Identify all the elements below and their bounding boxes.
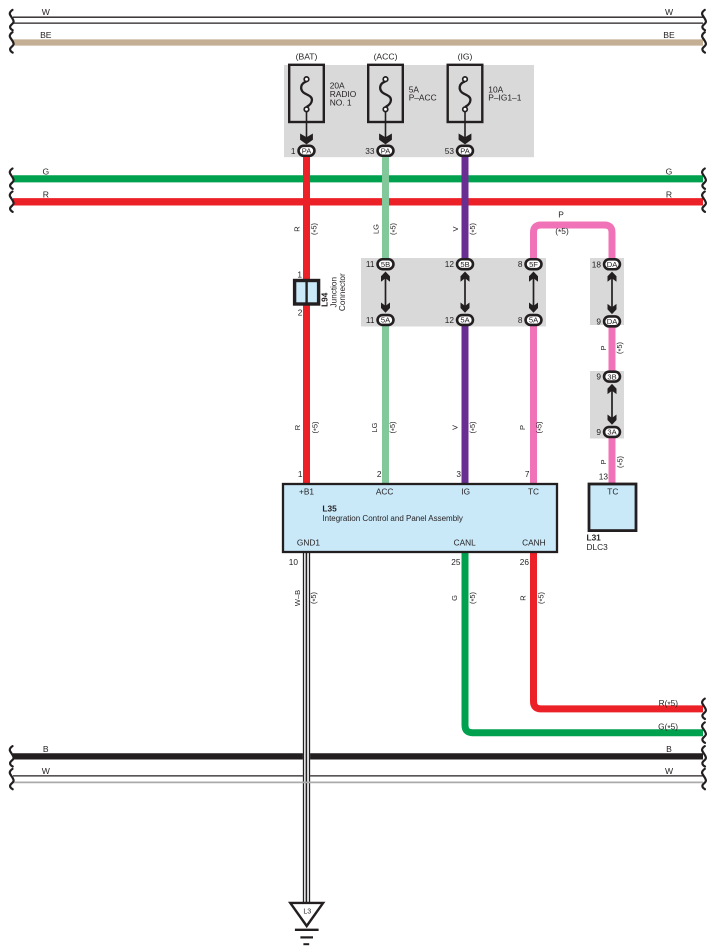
fuse 2 value 5A P-ACC bbox=[409, 84, 437, 102]
svg-text:R: R bbox=[292, 226, 301, 232]
svg-text:(ACC): (ACC) bbox=[374, 51, 398, 61]
svg-text:BE: BE bbox=[663, 30, 675, 40]
svg-text:+B1: +B1 bbox=[299, 487, 314, 497]
wire P (TC) lower segment to L35 bbox=[530, 320, 537, 484]
svg-text:(*5): (*5) bbox=[388, 421, 398, 434]
svg-text:12: 12 bbox=[445, 259, 455, 269]
svg-text:5B: 5B bbox=[381, 260, 390, 269]
svg-text:IG: IG bbox=[461, 487, 470, 497]
wire label P (*5) above L35 bbox=[518, 421, 545, 434]
svg-text:B: B bbox=[43, 744, 49, 754]
svg-text:9: 9 bbox=[596, 316, 601, 326]
connector pair 5B/5A pin 12 (V wire) bbox=[445, 259, 473, 325]
svg-text:(BAT): (BAT) bbox=[296, 51, 318, 61]
svg-text:8: 8 bbox=[518, 259, 523, 269]
svg-text:3A: 3A bbox=[607, 428, 617, 437]
svg-text:5A: 5A bbox=[381, 316, 391, 325]
svg-text:PA: PA bbox=[460, 147, 471, 156]
svg-text:CANH: CANH bbox=[522, 537, 546, 547]
svg-text:G: G bbox=[666, 166, 673, 176]
svg-text:R: R bbox=[293, 424, 302, 430]
fuse block background panel bbox=[284, 65, 534, 157]
svg-text:G: G bbox=[450, 595, 459, 601]
svg-text:18: 18 bbox=[592, 259, 602, 269]
svg-text:P: P bbox=[518, 425, 527, 430]
svg-text:P: P bbox=[558, 210, 564, 220]
bus BE (beige) bbox=[13, 39, 703, 45]
svg-text:10: 10 bbox=[289, 557, 299, 567]
svg-text:11: 11 bbox=[366, 315, 375, 325]
fuse (IG) 10A P-IG1-1 bbox=[448, 65, 483, 145]
svg-text:DA: DA bbox=[607, 317, 618, 326]
svg-text:(*5): (*5) bbox=[468, 591, 478, 604]
wire V (IG) upper segment bbox=[462, 155, 469, 264]
svg-text:G: G bbox=[42, 166, 49, 176]
svg-text:B: B bbox=[666, 744, 672, 754]
svg-text:TC: TC bbox=[607, 487, 618, 497]
wire label R (*5) upper bbox=[292, 222, 319, 235]
connector panel B (DA group) bbox=[590, 258, 624, 325]
wire label V (*5) upper bbox=[451, 222, 478, 235]
bus W (bottom) upper line bbox=[13, 775, 703, 777]
svg-text:DLC3: DLC3 bbox=[587, 542, 609, 552]
wire label W-B (*5) below GND1 bbox=[293, 590, 320, 606]
wire label G (*5) below CANL bbox=[450, 591, 478, 604]
svg-text:3B: 3B bbox=[607, 372, 616, 381]
wire label R (*5) above L35 bbox=[293, 421, 321, 434]
svg-text:(*5): (*5) bbox=[389, 222, 399, 235]
svg-text:W: W bbox=[42, 766, 51, 776]
wire R (+B1 feed) from fuse 1 to L35 bbox=[303, 155, 310, 484]
svg-text:(*5): (*5) bbox=[309, 591, 319, 604]
bus G (green) bbox=[13, 175, 703, 182]
svg-text:5A: 5A bbox=[460, 316, 470, 325]
svg-text:11: 11 bbox=[366, 259, 375, 269]
bus R (red) bbox=[13, 198, 703, 205]
wire label LG (*5) above L35 bbox=[370, 421, 399, 434]
svg-text:W: W bbox=[665, 7, 674, 17]
connector pair 3B/3A pins 9/9 (P wire) bbox=[596, 372, 620, 437]
wire label V (*5) above L35 bbox=[451, 421, 479, 434]
svg-text:LG: LG bbox=[370, 422, 379, 432]
svg-text:W–B: W–B bbox=[293, 590, 302, 606]
svg-text:LG: LG bbox=[371, 224, 380, 234]
wire LG (ACC) upper segment bbox=[382, 155, 389, 264]
wire LG (ACC) lower segment bbox=[382, 320, 389, 484]
svg-text:25: 25 bbox=[451, 557, 461, 567]
svg-text:P: P bbox=[599, 345, 608, 350]
ground L3 bbox=[290, 903, 323, 944]
svg-text:26: 26 bbox=[520, 557, 530, 567]
component L35 Integration Control and Panel Assembly bbox=[283, 484, 557, 552]
svg-text:W: W bbox=[665, 766, 674, 776]
svg-text:Connector: Connector bbox=[338, 273, 347, 311]
svg-text:12: 12 bbox=[445, 315, 455, 325]
wire label R (*5) below CANH bbox=[519, 591, 547, 604]
svg-text:53: 53 bbox=[445, 146, 455, 156]
svg-text:(*5): (*5) bbox=[535, 421, 545, 434]
connector pair 5F/5A pin 8 (P wire) bbox=[518, 259, 542, 325]
junction connector L94 bbox=[295, 270, 319, 318]
svg-text:5F: 5F bbox=[529, 260, 538, 269]
svg-text:W: W bbox=[42, 7, 51, 17]
svg-text:P: P bbox=[599, 459, 608, 464]
svg-text:(*5): (*5) bbox=[468, 421, 478, 434]
svg-text:33: 33 bbox=[365, 146, 375, 156]
svg-text:(*5): (*5) bbox=[468, 222, 478, 235]
svg-text:9: 9 bbox=[596, 372, 601, 382]
svg-text:5B: 5B bbox=[460, 260, 469, 269]
svg-text:13: 13 bbox=[599, 472, 609, 482]
component L31 DLC3 bbox=[587, 484, 637, 552]
wire P (DLC3 branch) between DA and 3B bbox=[609, 321, 616, 377]
svg-text:1: 1 bbox=[291, 146, 296, 156]
fuse 1 value 20A RADIO NO. 1 bbox=[330, 81, 357, 108]
svg-text:L35: L35 bbox=[322, 503, 337, 513]
svg-text:9: 9 bbox=[596, 427, 601, 437]
svg-text:NO. 1: NO. 1 bbox=[330, 98, 352, 108]
svg-text:V: V bbox=[451, 226, 460, 231]
svg-text:PA: PA bbox=[381, 147, 392, 156]
bus W bottom left break bbox=[10, 769, 14, 789]
fuse 3 value 10A P-IG1-1 bbox=[488, 84, 521, 102]
svg-text:2: 2 bbox=[298, 308, 303, 318]
svg-text:5A: 5A bbox=[529, 316, 539, 325]
svg-text:(*5): (*5) bbox=[536, 591, 546, 604]
svg-text:(*5): (*5) bbox=[555, 226, 569, 237]
bus G left break bbox=[10, 169, 14, 189]
bus W (top, white wire as double line) bbox=[13, 17, 703, 23]
bus W (bottom) lower gray line bbox=[13, 781, 703, 783]
bus B left break bbox=[10, 746, 14, 766]
svg-text:CANL: CANL bbox=[454, 537, 477, 547]
svg-text:BE: BE bbox=[40, 30, 52, 40]
svg-text:P–IG1–1: P–IG1–1 bbox=[488, 93, 521, 103]
svg-text:R: R bbox=[666, 189, 672, 199]
label L94 Junction Connector bbox=[321, 273, 347, 311]
wire W-B (GND1 to ground L3) bbox=[303, 552, 310, 903]
connector panel C (3B/3A group) bbox=[590, 371, 624, 439]
bus BE left break bbox=[10, 32, 14, 52]
svg-text:L94: L94 bbox=[321, 292, 330, 307]
svg-text:PA: PA bbox=[302, 147, 313, 156]
connector panel A (5B/5A group) bbox=[361, 258, 546, 327]
bus W bottom right break bbox=[702, 769, 706, 789]
wire label P (*5) DLC3 branch mid bbox=[599, 341, 625, 354]
svg-text:(IG): (IG) bbox=[458, 51, 473, 61]
svg-text:G(*5): G(*5) bbox=[658, 722, 678, 733]
fuse (BAT) 20A RADIO NO.1 bbox=[289, 65, 324, 145]
wire V (IG) lower segment bbox=[462, 320, 469, 484]
wire R (CANH) from L35 to right edge bbox=[534, 552, 704, 709]
svg-text:R: R bbox=[519, 595, 528, 601]
svg-text:(*5): (*5) bbox=[310, 421, 320, 434]
svg-text:8: 8 bbox=[518, 315, 523, 325]
bus R left break bbox=[10, 192, 14, 212]
bus G right break bbox=[702, 169, 706, 189]
connector pair 5B/5A pin 11 (LG wire) bbox=[366, 259, 394, 325]
wire label P (*5) at top run bbox=[555, 210, 569, 238]
svg-text:ACC: ACC bbox=[376, 487, 394, 497]
svg-text:L31: L31 bbox=[587, 532, 602, 542]
wire G (CANL) from L35 to right edge bbox=[465, 552, 703, 733]
svg-text:1: 1 bbox=[298, 469, 303, 479]
svg-text:Integration Control and Panel: Integration Control and Panel Assembly bbox=[322, 514, 463, 523]
bus W top left break bbox=[10, 10, 14, 30]
svg-text:R: R bbox=[43, 189, 49, 199]
svg-text:7: 7 bbox=[525, 469, 530, 479]
svg-text:L3: L3 bbox=[303, 909, 311, 916]
svg-text:DA: DA bbox=[607, 260, 618, 269]
svg-text:R(*5): R(*5) bbox=[659, 698, 679, 709]
svg-text:(*5): (*5) bbox=[615, 341, 625, 354]
svg-text:1: 1 bbox=[297, 270, 302, 280]
svg-text:3: 3 bbox=[456, 469, 461, 479]
svg-text:TC: TC bbox=[528, 487, 539, 497]
bus B right break bbox=[702, 746, 706, 766]
bus W top right break bbox=[702, 10, 706, 30]
bus BE right break bbox=[702, 32, 706, 52]
connector PA pin 33 bbox=[365, 146, 393, 156]
wire P (DLC3 branch) between 3A and L31 bbox=[609, 432, 616, 484]
bus B (black, bottom) bbox=[13, 753, 703, 759]
connector PA pin 53 bbox=[445, 146, 473, 156]
svg-text:GND1: GND1 bbox=[297, 537, 320, 547]
svg-text:(*5): (*5) bbox=[616, 455, 626, 468]
svg-text:2: 2 bbox=[377, 469, 382, 479]
connector pair DA/DA pins 18/9 (P wire) bbox=[592, 259, 620, 326]
wire label LG (*5) upper bbox=[371, 222, 398, 235]
svg-text:(*5): (*5) bbox=[310, 222, 320, 235]
wire label P (*5) above L31 bbox=[599, 455, 626, 468]
wire P (TC) top run with corners bbox=[534, 225, 613, 264]
bus R right break bbox=[702, 192, 706, 212]
wire G(*5) right break bbox=[702, 722, 706, 742]
svg-text:V: V bbox=[451, 425, 460, 430]
fuse (ACC) 5A P-ACC bbox=[368, 65, 403, 145]
svg-text:P–ACC: P–ACC bbox=[409, 93, 437, 103]
connector PA pin 1 bbox=[291, 146, 315, 156]
wire R(*5) right break bbox=[702, 699, 706, 719]
